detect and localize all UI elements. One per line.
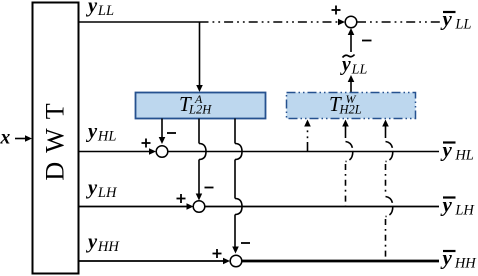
- plus sign at adder U6: [213, 249, 222, 258]
- vertical wire y_LL to T_L2H: [196, 22, 203, 92]
- input arrow: [15, 135, 32, 142]
- wire T_L2H out1 down to adder U4: [159, 119, 166, 145]
- wire y_LL solid: [78, 21, 200, 23]
- minus sign at adder U5: [205, 187, 214, 189]
- wire tap ybar_HH up into T_H2L (dashdot, hop y_LH and y_HL): [382, 120, 393, 262]
- minus sign at adder U4: [167, 132, 176, 134]
- svg-text:L2H: L2H: [188, 103, 212, 117]
- arrow into adder U5: [187, 203, 194, 210]
- wire y_HL to adder U4: [78, 151, 150, 153]
- label ybar_LH: [440, 193, 476, 219]
- arrow into adder U6: [223, 258, 230, 265]
- wire adder U5 to ybar_LH: [205, 206, 439, 208]
- adder U4 (y_HL summing circle): [156, 146, 168, 158]
- wire T_L2H out3 down (hop y_HL, hop y_LH) to adder U6: [232, 119, 242, 254]
- label ybar_LL: [440, 7, 472, 33]
- plus sign at adder U5: [177, 194, 186, 203]
- svg-text:DWT: DWT: [41, 94, 70, 180]
- wire tap ybar_LH up into T_H2L (dashdot, hop y_HL): [342, 120, 353, 207]
- minus sign at adder U6: [241, 242, 250, 244]
- wire T_L2H out2 down (hop over y_HL) to adder U5: [196, 119, 206, 201]
- wire T_H2L top to ytilde_LL: [348, 75, 355, 92]
- svg-text:x: x: [0, 128, 11, 149]
- wire tap ybar_HL up into T_H2L (dashdot): [304, 120, 311, 152]
- svg-text:yLL: yLL: [85, 0, 114, 19]
- arrow into adder U4: [149, 148, 156, 155]
- DWT block: [33, 3, 79, 274]
- wire y_HH to adder U6: [78, 260, 224, 262]
- label ytilde_LL: [340, 55, 367, 78]
- wire adder U3 to output dashdot: [357, 21, 440, 23]
- wire adder U4 to ybar_HL: [168, 151, 439, 153]
- adder U5 (y_LH summing circle): [193, 201, 205, 213]
- plus sign at adder U3: [332, 6, 341, 15]
- wire ytilde_LL up into adder U3: [348, 28, 355, 52]
- block T_L2H (U1): [136, 92, 266, 119]
- adder U6 (y_HH summing circle): [230, 255, 242, 267]
- adder U3 (y_LL summing circle): [345, 16, 357, 28]
- wire y_LH to adder U5: [78, 206, 188, 208]
- label ybar_HL: [440, 138, 474, 164]
- svg-text:H2L: H2L: [339, 103, 362, 117]
- wire y_LL dashdot to adder: [200, 21, 340, 23]
- plus sign at adder U4: [142, 139, 151, 148]
- wire adder U6 to ybar_HH: [242, 260, 439, 263]
- block T_H2L (U2): [287, 92, 416, 119]
- minus sign below adder U3: [362, 40, 372, 42]
- arrow into adder U3 left: [338, 19, 345, 26]
- label ybar_HH: [440, 246, 478, 272]
